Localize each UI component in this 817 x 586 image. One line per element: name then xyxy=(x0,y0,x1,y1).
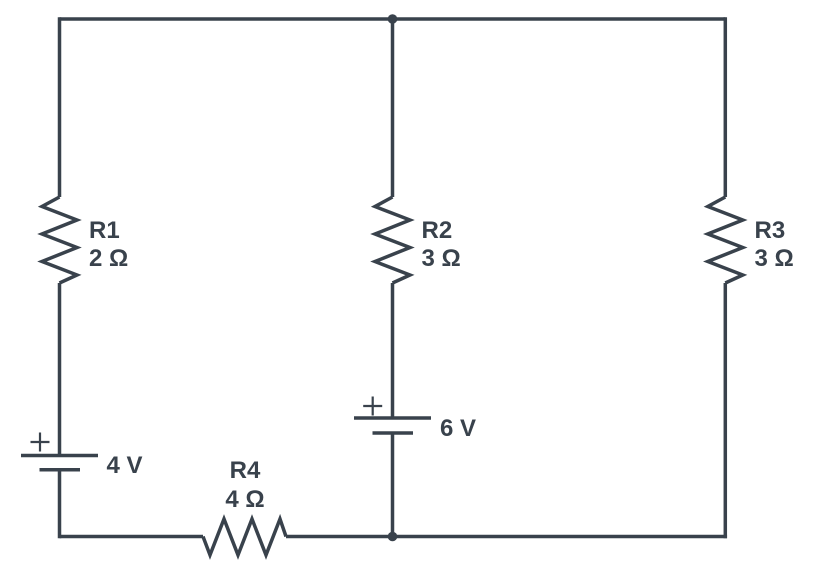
wire left upper xyxy=(58,17,62,197)
svg-text:R4: R4 xyxy=(230,457,261,484)
wire middle mid xyxy=(391,283,395,418)
node junction top xyxy=(388,14,398,24)
svg-text:6 V: 6 V xyxy=(440,415,476,442)
svg-text:R2: R2 xyxy=(422,217,453,244)
resistor R4 xyxy=(203,519,286,555)
svg-text:R3: R3 xyxy=(755,217,786,244)
wire right upper xyxy=(724,17,728,197)
svg-text:2 Ω: 2 Ω xyxy=(89,245,128,272)
svg-text:3 Ω: 3 Ω xyxy=(422,245,461,272)
battery V2 short plate xyxy=(373,431,414,435)
battery V1 long plate xyxy=(21,454,98,458)
svg-text:4 V: 4 V xyxy=(107,452,143,479)
wire bottom right xyxy=(393,535,728,539)
wire middle upper xyxy=(391,19,395,197)
wire top xyxy=(60,17,726,21)
wire left lower xyxy=(58,470,62,538)
wire right lower xyxy=(724,283,728,538)
resistor R2 xyxy=(375,197,410,283)
resistor R1 xyxy=(42,197,77,283)
resistor R3 xyxy=(708,197,743,283)
svg-text:3 Ω: 3 Ω xyxy=(755,245,794,272)
wire middle lower xyxy=(391,433,395,537)
node junction bottom xyxy=(388,532,398,542)
battery V2 long plate xyxy=(354,416,431,420)
battery V1 short plate xyxy=(40,468,81,472)
battery V2 plus sign xyxy=(363,397,382,416)
wire bottom middle xyxy=(286,535,393,539)
svg-text:4 Ω: 4 Ω xyxy=(225,486,264,513)
wire bottom left xyxy=(60,535,204,539)
svg-text:R1: R1 xyxy=(89,217,120,244)
wire left middle xyxy=(58,283,62,456)
battery V1 plus sign xyxy=(31,433,50,452)
